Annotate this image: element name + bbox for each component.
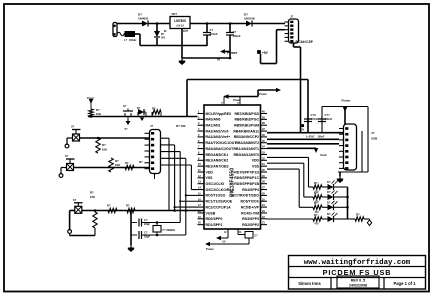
resistor R4	[109, 158, 113, 172]
svg-text:0_47uF: 0_47uF	[306, 136, 315, 139]
svg-text:470uF: 470uF	[210, 32, 218, 36]
ground	[339, 176, 341, 179]
svg-text:RA4/T0CKI/C1OUT: RA4/T0CKI/C1OUT	[206, 141, 238, 145]
diode D2	[246, 21, 252, 27]
diode D4	[138, 109, 144, 115]
resistor R9	[108, 208, 117, 212]
svg-text:R?: R?	[107, 204, 111, 208]
svg-text:PICDEM FS USB: PICDEM FS USB	[323, 268, 392, 277]
svg-text:PICkit ICSP: PICkit ICSP	[296, 40, 314, 44]
svg-text:RD1/SPP1: RD1/SPP1	[206, 223, 223, 227]
capacitor C1 470nF	[304, 118, 312, 120]
zener D3	[154, 31, 160, 37]
switch S1 pushbutton	[124, 113, 126, 117]
svg-text:0V: 0V	[217, 58, 220, 62]
svg-text:Power: Power	[227, 51, 238, 55]
svg-text:D?: D?	[137, 107, 141, 110]
svg-text:RB3/AN9/CCP2: RB3/AN9/CCP2	[234, 135, 259, 139]
wire	[339, 172, 341, 176]
wires U1 to LEDs	[267, 156, 309, 158]
ground	[140, 118, 144, 122]
resistor R3 10K	[96, 138, 100, 153]
svg-text:RD0/SPP0: RD0/SPP0	[206, 217, 223, 221]
node	[346, 196, 349, 199]
svg-text:22pF: 22pF	[144, 222, 150, 226]
svg-text:RD3/SPP3: RD3/SPP3	[242, 217, 259, 221]
svg-text:R?: R?	[139, 160, 143, 164]
wire Vdd bus	[187, 79, 308, 81]
wire shield	[361, 131, 363, 172]
svg-text:RD4/SPP4: RD4/SPP4	[242, 188, 259, 192]
svg-text:Power: Power	[206, 247, 214, 251]
LED D6	[322, 196, 328, 198]
svg-text:MCLR/Vpp/RE3: MCLR/Vpp/RE3	[206, 112, 232, 116]
title block divider	[289, 277, 426, 279]
node	[156, 22, 159, 25]
svg-text:Power: Power	[259, 92, 267, 96]
svg-text:RC5/D+/VP: RC5/D+/VP	[241, 205, 260, 209]
pin 11 VDD stub	[223, 97, 225, 106]
capacitor C4 100nF	[229, 24, 231, 33]
svg-text:RC0/T1OSO: RC0/T1OSO	[206, 194, 226, 198]
switch S3	[66, 158, 75, 160]
svg-text:22pF: 22pF	[144, 234, 150, 238]
svg-text:S?: S?	[71, 125, 75, 129]
svg-text:24/02/2008: 24/02/2008	[349, 284, 367, 288]
power flag	[220, 49, 225, 53]
svg-text:RA5/AN4/C2OUT: RA5/AN4/C2OUT	[206, 147, 235, 151]
svg-text:D?: D?	[327, 212, 331, 216]
wire	[238, 234, 245, 236]
svg-text:D?: D?	[327, 200, 331, 204]
capacitor C5	[245, 232, 253, 239]
svg-text:OSC2/CLKO/RA6: OSC2/CLKO/RA6	[206, 188, 234, 192]
wire D- bus	[267, 143, 339, 145]
wire 0V rail	[267, 132, 343, 134]
svg-text:C?: C?	[255, 235, 259, 238]
svg-text:RB5/KBI1/PGM: RB5/KBI1/PGM	[234, 124, 259, 128]
svg-text:+5V 1A: +5V 1A	[176, 25, 184, 28]
svg-text:RD7/SPP7/P1D: RD7/SPP7/P1D	[234, 170, 259, 174]
svg-text:10K: 10K	[96, 112, 101, 116]
resistor R14 470	[313, 195, 322, 199]
svg-text:RA0/AN0: RA0/AN0	[206, 118, 221, 122]
svg-text:RB1/AN10/INT1: RB1/AN10/INT1	[234, 147, 260, 151]
power flag	[276, 88, 281, 92]
svg-text:R?: R?	[314, 213, 318, 217]
capacitor C2 100nF	[322, 106, 368, 108]
resistor R8 10K	[94, 211, 96, 213]
title block frame	[289, 256, 426, 290]
pin 31 VSS stub	[237, 229, 239, 235]
svg-text:470nF: 470nF	[311, 117, 319, 121]
svg-text:RB0/AN12/INT0: RB0/AN12/INT0	[234, 153, 260, 157]
wire	[156, 38, 158, 46]
pin stubs	[145, 132, 150, 134]
svg-text:RC7/RX/DT/SDO: RC7/RX/DT/SDO	[232, 194, 259, 198]
svg-text:0V: 0V	[301, 128, 304, 132]
svg-text:Y? 20MHz: Y? 20MHz	[162, 228, 176, 232]
wire	[117, 23, 142, 25]
connector J3 expansion header	[150, 130, 161, 174]
svg-text:D?: D?	[327, 180, 331, 184]
wire	[293, 43, 295, 47]
wire rail	[74, 167, 150, 169]
svg-text:RD2/SPP2: RD2/SPP2	[242, 223, 259, 227]
title block rev box	[337, 276, 379, 288]
wire	[186, 80, 188, 117]
wire D+ bus	[267, 138, 339, 140]
svg-text:USB: USB	[371, 137, 378, 141]
svg-text:VDD: VDD	[206, 170, 214, 174]
regulator VR1 LM7805	[170, 17, 190, 29]
wire	[135, 33, 141, 35]
net flag 0V	[216, 236, 221, 240]
LED D5	[322, 186, 328, 188]
wires header to bus	[161, 137, 170, 139]
svg-text:Page 1 of 1: Page 1 of 1	[393, 281, 416, 286]
svg-text:10K: 10K	[102, 148, 107, 152]
label +5V	[258, 51, 261, 54]
title block divider	[289, 266, 426, 268]
wire	[248, 238, 250, 244]
node	[156, 221, 159, 224]
svg-text:RB4/KBI0/AN11: RB4/KBI0/AN11	[233, 129, 259, 133]
svg-text:IN: IN	[164, 30, 167, 33]
wire	[257, 90, 259, 97]
svg-text:OUT: OUT	[183, 30, 189, 33]
switch S2	[72, 129, 81, 131]
svg-text:R?: R?	[314, 191, 318, 195]
switch S4	[74, 202, 83, 204]
wire	[347, 187, 349, 219]
svg-text:0V: 0V	[223, 241, 226, 244]
title block divider	[383, 278, 385, 290]
svg-text:R?: R?	[314, 181, 318, 185]
diode D1	[142, 21, 148, 27]
svg-text:RC4/D-/VM: RC4/D-/VM	[241, 211, 259, 215]
wire	[148, 23, 170, 25]
wire bottom rail	[140, 45, 207, 47]
node	[90, 115, 93, 118]
ground	[181, 58, 183, 61]
svg-text:S?: S?	[125, 128, 129, 131]
power flag	[224, 94, 229, 98]
svg-text:RB7/KBI3/PGD: RB7/KBI3/PGD	[234, 112, 259, 116]
connector J2 USB	[344, 124, 357, 170]
wires bus to U1	[191, 189, 197, 191]
connector J1 DC power jack	[113, 23, 117, 37]
svg-text:R?: R?	[356, 213, 360, 217]
op-amp U1 PIC18F4550 body	[204, 105, 261, 229]
svg-text:VDD: VDD	[252, 159, 260, 163]
LED D8	[322, 218, 328, 220]
svg-text:C?: C?	[144, 218, 148, 222]
ground	[127, 117, 129, 122]
svg-text:1N4148: 1N4148	[244, 17, 255, 21]
node	[206, 22, 209, 25]
node	[97, 137, 100, 140]
svg-text:100uH: 100uH	[129, 39, 136, 42]
svg-text:OSC1/CLKI: OSC1/CLKI	[206, 182, 225, 186]
node	[94, 209, 97, 212]
svg-text:S?: S?	[73, 198, 77, 202]
wire	[154, 174, 156, 180]
capacitor C7 22pF	[131, 234, 137, 236]
wire	[181, 29, 183, 59]
svg-text:RD5/SPP5/P1B: RD5/SPP5/P1B	[234, 182, 259, 186]
svg-text:Simon Inns: Simon Inns	[298, 281, 321, 286]
svg-text:Power: Power	[342, 99, 352, 103]
svg-text:R?: R?	[90, 191, 94, 195]
svg-text:Vusb: Vusb	[320, 153, 327, 157]
inductor L1	[125, 32, 135, 37]
pins U1 right 40-21	[261, 113, 268, 115]
svg-text:100nF: 100nF	[318, 136, 325, 139]
resistor R10	[127, 208, 135, 212]
fuse F1	[117, 32, 128, 36]
svg-text:J?: J?	[371, 131, 375, 135]
LED D7	[322, 206, 328, 208]
wire Vusb bus	[267, 147, 316, 149]
title block divider	[330, 278, 332, 290]
crystal Y1 20MHz	[153, 226, 161, 233]
wire	[307, 80, 309, 133]
capacitor C3 470uF	[206, 24, 208, 33]
wire	[190, 23, 246, 25]
svg-text:VUSB: VUSB	[206, 211, 216, 215]
svg-text:RD6/SPP6/P1C: RD6/SPP6/P1C	[234, 176, 259, 180]
svg-text:RA1/AN1: RA1/AN1	[206, 124, 221, 128]
svg-text:R?: R?	[314, 201, 318, 205]
svg-text:D?: D?	[327, 190, 331, 194]
power flag	[89, 99, 93, 104]
svg-text:RB2/AN8/INT2: RB2/AN8/INT2	[235, 141, 259, 145]
connector J5 ICSP header	[289, 19, 299, 43]
svg-text:RA2/AN2/Vref-: RA2/AN2/Vref-	[206, 129, 231, 133]
svg-text:RC1/T1OSI/UOE: RC1/T1OSI/UOE	[206, 200, 233, 204]
svg-text:100nF: 100nF	[233, 34, 241, 38]
svg-text:Power: Power	[233, 98, 241, 102]
net flag	[314, 148, 318, 153]
svg-text:J?: J?	[290, 15, 294, 19]
svg-text:+5V: +5V	[262, 51, 269, 55]
pins U1 left 1-20	[198, 113, 205, 115]
wire	[69, 234, 71, 236]
svg-text:www.waitingforfriday.com: www.waitingforfriday.com	[304, 259, 411, 267]
svg-text:L?: L?	[124, 38, 128, 42]
wire rail	[82, 210, 204, 212]
wire	[156, 24, 158, 32]
svg-text:470: 470	[315, 223, 320, 226]
svg-text:R?: R?	[102, 143, 106, 147]
wire	[252, 23, 285, 25]
svg-text:Power: Power	[87, 97, 94, 100]
svg-text:LM7805: LM7805	[174, 19, 186, 23]
wire	[224, 96, 258, 98]
svg-text:REV 0_5: REV 0_5	[351, 279, 365, 283]
resistor R1 10K	[90, 103, 92, 109]
wire vertical bus	[168, 138, 170, 210]
wire	[277, 29, 285, 31]
svg-text:J?: J?	[150, 124, 154, 128]
capacitor C6 22pF	[131, 222, 137, 224]
svg-text:5V1: 5V1	[161, 37, 166, 40]
pin stubs	[285, 21, 289, 23]
svg-text:RC6/TX/CK: RC6/TX/CK	[241, 200, 260, 204]
svg-text:1N4001: 1N4001	[138, 17, 149, 21]
resistor R15 470	[313, 205, 322, 209]
svg-text:100nF: 100nF	[325, 117, 333, 121]
pin 12 VSS stub	[227, 229, 229, 238]
wire	[70, 210, 75, 212]
svg-text:VSS: VSS	[252, 164, 260, 168]
svg-text:C??: C??	[325, 113, 331, 117]
svg-text:RE1/AN6/CK2: RE1/AN6/CK2	[206, 159, 229, 163]
svg-text:RB6/KBI2/PGC: RB6/KBI2/PGC	[234, 118, 259, 122]
svg-text:S?: S?	[123, 104, 127, 108]
svg-text:R? 10K: R? 10K	[176, 124, 186, 128]
svg-text:VR?: VR?	[172, 12, 178, 16]
svg-text:S?: S?	[65, 154, 69, 158]
svg-text:R?: R?	[152, 107, 156, 111]
ground node	[367, 220, 371, 225]
wire	[364, 218, 370, 220]
power flag	[205, 242, 210, 246]
resistor R5	[125, 165, 134, 169]
pin stubs	[339, 128, 344, 130]
resistor R17	[348, 218, 356, 220]
node	[229, 57, 232, 60]
wire rail	[88, 116, 198, 118]
svg-text:VSS: VSS	[206, 176, 214, 180]
pin 32 VDD stub	[239, 97, 241, 106]
svg-text:R?: R?	[125, 161, 129, 165]
node	[130, 209, 133, 212]
svg-text:C?A: C?A	[311, 113, 317, 117]
svg-text:10K: 10K	[115, 163, 120, 167]
resistor R2	[152, 110, 161, 114]
ground	[130, 245, 132, 248]
svg-text:RA3/AN3/Vref+: RA3/AN3/Vref+	[206, 135, 231, 139]
svg-text:R?: R?	[126, 204, 130, 208]
resistor R13 470	[313, 185, 322, 189]
svg-text:C?: C?	[144, 231, 148, 235]
resistor R16 470	[313, 217, 322, 221]
wire	[130, 211, 132, 246]
svg-text:RE2/AN7/OES: RE2/AN7/OES	[206, 164, 230, 168]
svg-text:10K: 10K	[90, 195, 95, 199]
wire rail	[80, 137, 150, 139]
svg-text:RE0/AN5/CK1: RE0/AN5/CK1	[206, 153, 229, 157]
svg-text:RC2/CCP1/P1A: RC2/CCP1/P1A	[206, 205, 232, 209]
terminal	[68, 230, 72, 234]
